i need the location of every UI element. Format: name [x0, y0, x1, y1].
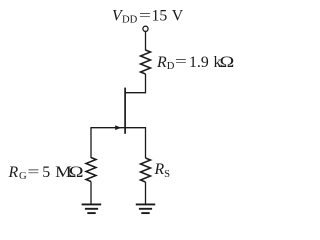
transistor Q1 channel bar — [124, 88, 126, 134]
wire source horizontal — [125, 128, 145, 158]
svg-text:=: = — [175, 53, 187, 68]
svg-text:R: R — [8, 164, 19, 181]
svg-text:15: 15 — [152, 8, 168, 25]
ground left — [82, 204, 102, 213]
svg-text:R: R — [156, 54, 167, 71]
svg-text:Ω: Ω — [220, 53, 235, 71]
svg-text:Ω: Ω — [69, 163, 84, 181]
svg-text:1.9: 1.9 — [189, 54, 209, 71]
label RD = 1.9 kOhm — [156, 53, 234, 72]
label RG = 5 MOhm — [8, 163, 84, 182]
svg-text:D: D — [167, 61, 175, 72]
resistor RG — [86, 158, 96, 182]
svg-text:=: = — [139, 7, 151, 22]
wire RG to ground — [90, 182, 92, 205]
svg-text:=: = — [27, 164, 39, 179]
svg-text:G: G — [19, 171, 27, 182]
label VDD = 15 V — [112, 7, 184, 26]
wire gate horizontal — [91, 127, 125, 129]
wire RD to drain — [125, 74, 145, 93]
svg-text:5: 5 — [42, 164, 50, 181]
transistor Q1 gate arrow — [115, 125, 121, 130]
wire RS to ground — [145, 182, 147, 204]
wire gate down to RG — [90, 127, 92, 158]
resistor RS — [141, 158, 151, 182]
svg-text:DD: DD — [122, 15, 138, 26]
node VDD terminal — [143, 26, 148, 31]
svg-text:V: V — [172, 8, 184, 25]
resistor RD — [141, 50, 151, 74]
wire VDD to RD — [145, 32, 147, 51]
ground right — [136, 204, 155, 213]
